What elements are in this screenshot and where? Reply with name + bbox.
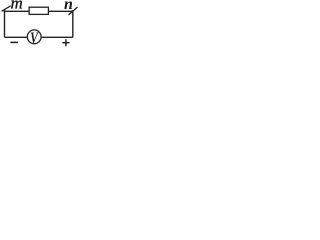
polarity plus sign xyxy=(62,42,69,44)
wire resistor to n xyxy=(49,10,74,12)
wire bottom-left to voltmeter xyxy=(5,36,28,38)
wire left side m down to bottom xyxy=(4,11,6,37)
wire right side n down to bottom xyxy=(72,11,74,37)
voltmeter V (circle) xyxy=(27,30,41,44)
wire external lead slash at m xyxy=(2,6,11,12)
voltmeter V letter xyxy=(30,29,39,46)
wire external lead slash at n xyxy=(69,7,78,15)
junction dot at m xyxy=(4,10,6,12)
junction dot at n xyxy=(72,10,74,12)
polarity minus sign xyxy=(10,41,18,43)
wire voltmeter to bottom-right xyxy=(42,36,73,38)
resistor R (box) xyxy=(29,7,48,14)
wire top-left m to resistor xyxy=(5,10,30,12)
